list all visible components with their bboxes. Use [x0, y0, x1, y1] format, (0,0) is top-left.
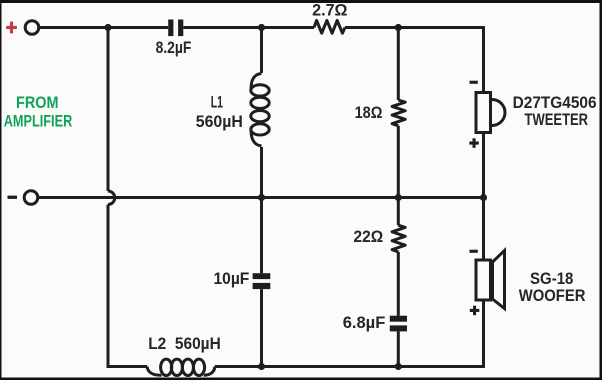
svg-text:WOOFER: WOOFER — [519, 286, 586, 305]
svg-text:2.7Ω: 2.7Ω — [312, 1, 347, 20]
svg-text:6.8µF: 6.8µF — [343, 313, 386, 332]
svg-text:L2 560µH: L2 560µH — [148, 334, 221, 353]
svg-text:TWEETER: TWEETER — [525, 110, 589, 129]
svg-text:10µF: 10µF — [214, 269, 250, 288]
svg-text:560µH: 560µH — [196, 112, 243, 131]
svg-text:18Ω: 18Ω — [355, 103, 383, 122]
svg-text:22Ω: 22Ω — [354, 227, 384, 246]
svg-text:8.2µF: 8.2µF — [156, 38, 192, 57]
svg-text:AMPLIFIER: AMPLIFIER — [4, 112, 73, 131]
svg-text:FROM: FROM — [16, 93, 59, 112]
svg-text:L1: L1 — [211, 93, 223, 112]
